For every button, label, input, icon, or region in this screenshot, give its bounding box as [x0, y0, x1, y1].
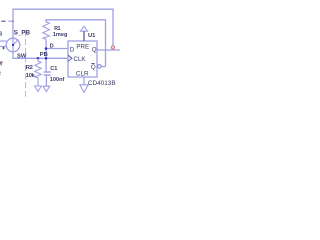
svg-text:1meg: 1meg [53, 32, 68, 38]
wire R1 bottom through to C1 [45, 39, 47, 72]
switch left pin 2 [0, 46, 6, 48]
wire CLK net PB [12, 57, 68, 59]
svg-text:CD4013B: CD4013B [88, 80, 116, 87]
terminal circle on Q feedback [111, 46, 114, 49]
svg-text:D: D [70, 47, 75, 54]
svg-text:10k: 10k [26, 73, 36, 79]
svg-text:100nf: 100nf [50, 77, 65, 83]
svg-text:R2: R2 [26, 65, 33, 71]
wire top feedback rail Q to switch [13, 9, 113, 45]
resistor R2 [35, 58, 41, 86]
capacitor C1 bottom lead [45, 75, 47, 86]
wire Qbar to riser [102, 66, 106, 68]
PRE stem [83, 31, 85, 41]
svg-text:C1: C1 [50, 66, 57, 72]
ground for CLR [80, 85, 88, 93]
clock wedge [68, 55, 72, 61]
svg-text:Q: Q [92, 47, 97, 54]
switch left pin 1 [0, 40, 6, 42]
switch S_PB body [6, 38, 20, 52]
svg-text:S: S [0, 32, 3, 38]
switch lever [13, 40, 18, 45]
dashed guide line [25, 31, 27, 99]
switch internal stem [12, 38, 14, 58]
svg-text:PB: PB [40, 52, 48, 58]
svg-text:CLR: CLR [76, 70, 89, 77]
wire stub off-page left dark dash [1, 20, 5, 22]
resistor R1 [43, 20, 50, 40]
svg-text:CLK: CLK [74, 56, 87, 63]
wire Q output [97, 49, 120, 51]
node at switch top wire [12, 20, 14, 22]
VDD triangle on PRE [80, 26, 87, 31]
svg-text:S_PB: S_PB [14, 29, 31, 36]
capacitor C1 [44, 71, 51, 73]
ground for C1 [43, 86, 50, 91]
ground for R2 [35, 86, 42, 91]
Qbar bubble [98, 65, 102, 69]
switch center dot [12, 44, 14, 46]
op IC U1 flip-flop body [68, 41, 97, 77]
svg-text:U1: U1 [88, 33, 96, 39]
wire stub off-page light dash [8, 20, 13, 22]
wire D net [46, 48, 68, 50]
wire Qbar feedback rail to R1 top [46, 20, 106, 67]
svg-text:Q: Q [91, 64, 96, 71]
CLR ground stem [83, 77, 85, 85]
switch plus mark [2, 47, 5, 50]
svg-text:D: D [50, 44, 54, 50]
node D junction [45, 47, 48, 50]
node R2 junction [37, 57, 40, 60]
node PB junction at C1/R1 column [45, 57, 48, 60]
svg-text:PRE: PRE [76, 43, 89, 50]
